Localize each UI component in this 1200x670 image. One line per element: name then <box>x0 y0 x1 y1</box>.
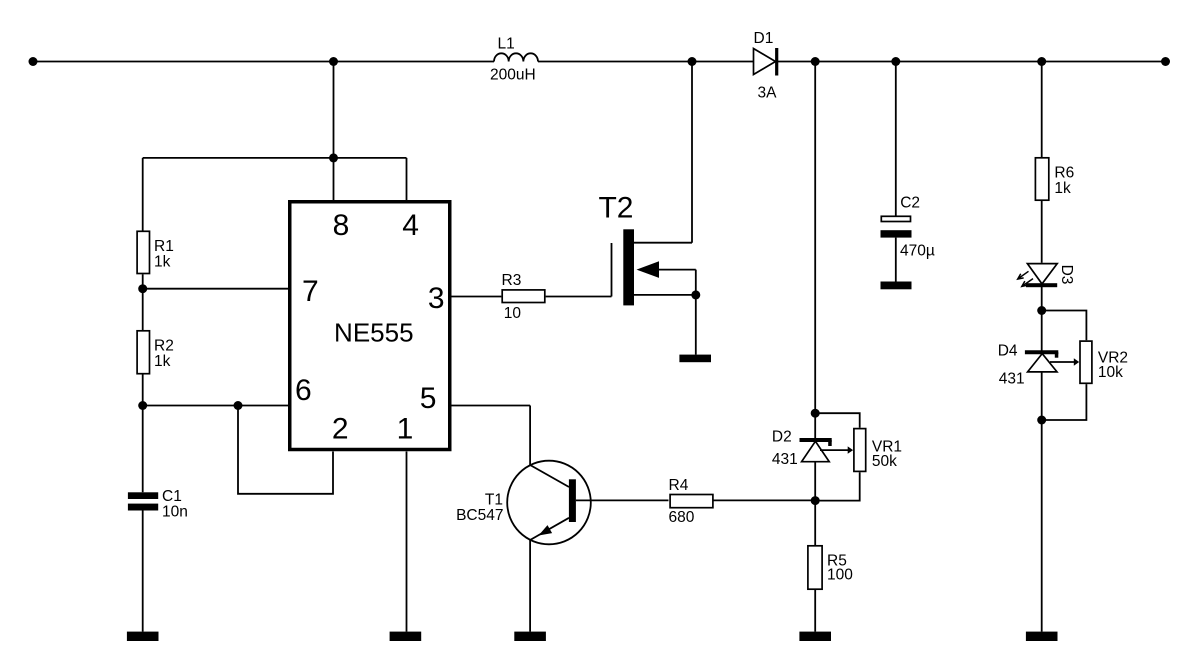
wire C1 to ground <box>142 511 144 632</box>
svg-text:7: 7 <box>302 275 319 308</box>
svg-text:8: 8 <box>333 209 350 242</box>
svg-text:R4: R4 <box>669 477 689 494</box>
wire R6 to D3 <box>1041 201 1043 263</box>
wire top rail right segment <box>777 61 1166 63</box>
svg-text:431: 431 <box>772 451 798 468</box>
ground T1 <box>514 632 546 641</box>
node junction VR1 top <box>811 409 820 418</box>
potentiometer VR1 <box>820 429 902 472</box>
svg-text:L1: L1 <box>498 36 515 53</box>
svg-text:680: 680 <box>669 509 695 526</box>
transistor T1 <box>456 461 591 545</box>
wire D2 branch from rail <box>814 62 816 439</box>
svg-text:50k: 50k <box>872 453 897 470</box>
wire VR2 top link <box>1042 311 1087 341</box>
potentiometer VR2 <box>1050 341 1128 383</box>
svg-text:R1: R1 <box>154 238 174 255</box>
wire R1 to R2 <box>142 274 144 330</box>
wire pin 6 <box>143 405 289 407</box>
diode D2 431 <box>772 429 832 469</box>
wire pin 5 to T1 <box>452 406 531 466</box>
svg-text:R3: R3 <box>502 272 522 289</box>
ground R5 <box>799 632 831 641</box>
svg-text:D2: D2 <box>772 429 792 446</box>
resistor R1 <box>137 231 174 273</box>
capacitor C1 <box>128 488 188 521</box>
wire VR1 bottom link <box>815 472 860 500</box>
svg-text:10: 10 <box>504 305 522 322</box>
diode D4 431 <box>998 342 1059 387</box>
svg-text:1k: 1k <box>154 353 171 370</box>
diode D3 LED <box>1018 264 1075 288</box>
resistor R6 <box>1035 158 1074 200</box>
ground right column <box>1026 632 1058 641</box>
svg-text:D3: D3 <box>1058 265 1075 285</box>
svg-text:3: 3 <box>428 282 445 315</box>
wire left branch down to R1 <box>142 158 144 231</box>
svg-text:100: 100 <box>827 567 853 584</box>
svg-text:1: 1 <box>397 412 414 445</box>
ground C2 <box>881 282 912 290</box>
node junction R6 branch <box>1037 57 1046 66</box>
wire pin 2 loop to pin 6 node <box>238 406 333 494</box>
node junction C2 branch <box>891 57 900 66</box>
wire T1 emitter to ground <box>529 540 531 632</box>
wire pin 1 to ground <box>406 452 408 632</box>
svg-text:2: 2 <box>332 412 349 445</box>
svg-text:4: 4 <box>402 209 419 242</box>
svg-text:1k: 1k <box>1054 180 1071 197</box>
wire R4 to D2 node <box>714 499 816 501</box>
ground C1 <box>127 632 159 641</box>
node junction 555 supply <box>329 57 338 66</box>
node junction T2 drain <box>688 57 697 66</box>
svg-text:C2: C2 <box>900 195 920 212</box>
wire C2 to ground <box>895 238 897 282</box>
node junction D2 branch <box>811 57 820 66</box>
wire pin 7 <box>143 288 289 290</box>
svg-text:431: 431 <box>999 371 1025 388</box>
transistor T2 <box>598 62 700 355</box>
diode D1 <box>754 30 778 102</box>
wire supply drop to pins 8 and 4 <box>143 62 407 202</box>
wire top rail left segment <box>33 61 494 63</box>
wire D2 anode to node <box>814 462 816 501</box>
svg-text:D4: D4 <box>998 342 1018 359</box>
node input terminal <box>29 57 38 66</box>
svg-text:3A: 3A <box>758 85 778 102</box>
ground T2 source <box>679 355 711 363</box>
node junction R4-D2-R5 <box>811 496 820 505</box>
wire R2 to C1 <box>142 375 144 493</box>
svg-text:BC547: BC547 <box>456 507 503 524</box>
node junction pin6 left <box>138 401 147 410</box>
ground pin 1 <box>390 632 422 641</box>
svg-text:D1: D1 <box>754 30 774 47</box>
wire T1 base to R4 <box>576 499 669 501</box>
svg-text:T2: T2 <box>598 191 633 224</box>
resistor R3 <box>502 272 545 322</box>
wire R5 to ground <box>814 590 816 632</box>
wire C2 branch <box>895 62 897 216</box>
wire VR1 top link <box>815 413 860 428</box>
svg-text:C1: C1 <box>162 488 182 505</box>
svg-text:NE555: NE555 <box>334 318 414 348</box>
wire R3 to T2 gate <box>546 296 612 298</box>
node junction threshold-trigger <box>234 401 243 410</box>
wire pin 3 to R3 <box>452 296 502 298</box>
node junction pin7 <box>138 284 147 293</box>
svg-text:R2: R2 <box>154 338 174 355</box>
wire top rail middle segment <box>538 61 754 63</box>
svg-text:6: 6 <box>295 374 312 407</box>
resistor R2 <box>137 331 174 374</box>
wire D3 down the right column <box>1041 285 1043 632</box>
svg-text:470µ: 470µ <box>900 242 935 259</box>
svg-text:10k: 10k <box>1098 364 1123 381</box>
node output terminal <box>1161 57 1170 66</box>
op-amp U1 NE555 body <box>290 202 450 450</box>
inductor L1 <box>490 36 538 84</box>
node junction VR2 bottom <box>1037 416 1046 425</box>
capacitor C2 <box>881 195 935 260</box>
node junction VR2 top <box>1037 306 1046 315</box>
resistor R4 <box>669 477 713 526</box>
svg-text:R6: R6 <box>1054 165 1074 182</box>
wire VR2 bottom link <box>1042 384 1087 420</box>
wire node to R5 <box>814 501 816 545</box>
wire R6 branch from rail <box>1041 62 1043 158</box>
svg-text:10n: 10n <box>162 504 188 521</box>
resistor R5 <box>808 546 853 589</box>
svg-text:200uH: 200uH <box>490 67 536 84</box>
svg-text:1k: 1k <box>154 254 171 271</box>
svg-text:5: 5 <box>420 382 437 415</box>
